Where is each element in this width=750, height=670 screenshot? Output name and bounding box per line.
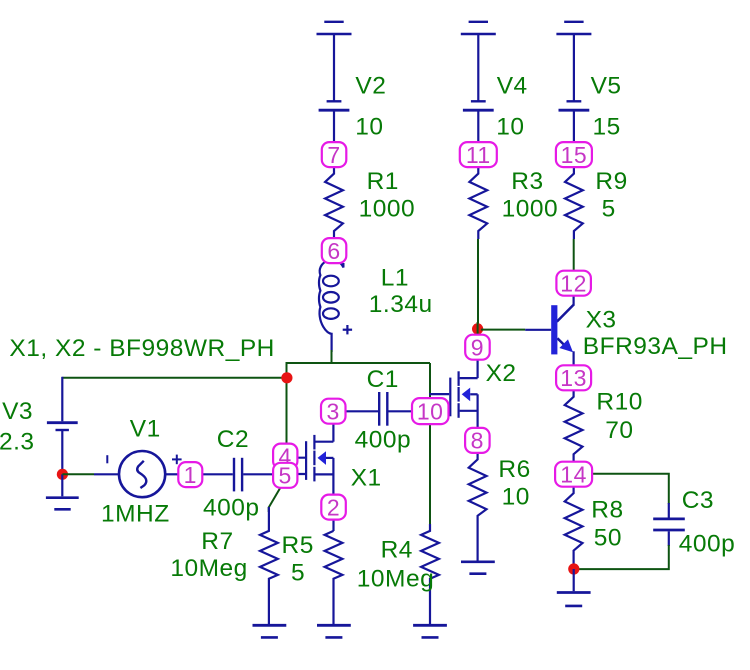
svg-text:10: 10 (502, 484, 530, 511)
svg-text:1000: 1000 (502, 196, 559, 223)
ground (below R6) (461, 562, 495, 574)
svg-text:V3: V3 (2, 398, 33, 425)
svg-text:15: 15 (593, 114, 621, 141)
node 8 (465, 428, 490, 454)
svg-text:11: 11 (466, 142, 491, 168)
ground (flipped, above battery V4) (461, 22, 496, 34)
node 12 (556, 271, 591, 297)
wire node 2 to R5 (332, 519, 334, 531)
wire node 9 red dot up/down stub (477, 322, 479, 335)
svg-text:X1: X1 (351, 465, 382, 492)
svg-text:1.34u: 1.34u (369, 291, 433, 318)
svg-text:R8: R8 (591, 497, 623, 524)
svg-text:400p: 400p (355, 427, 412, 454)
svg-text:1000: 1000 (359, 196, 416, 223)
svg-text:R3: R3 (511, 168, 543, 195)
svg-text:400p: 400p (679, 530, 736, 557)
svg-text:2: 2 (327, 494, 340, 520)
wire vertical through node 10 to R4 (429, 363, 431, 531)
node 4 (273, 443, 297, 469)
svg-text:R4: R4 (381, 537, 413, 564)
ground (below V3) (46, 474, 79, 509)
node 11 (460, 142, 497, 168)
wire V3 dot to V1 (62, 473, 94, 475)
wire R9 to node 12 (573, 239, 575, 271)
svg-text:R5: R5 (282, 532, 314, 559)
resistor R7 (260, 507, 278, 624)
capacitor C1 (379, 392, 412, 426)
svg-text:V1: V1 (130, 416, 161, 443)
ground (flipped, above battery V5) (556, 22, 591, 34)
wire node 5 to R7 (diagonal) (269, 487, 281, 512)
capacitor C2 (234, 458, 273, 492)
svg-text:5: 5 (602, 196, 616, 223)
capacitor C3 (653, 503, 685, 546)
resistor R8 (565, 487, 583, 569)
battery V5 (559, 34, 590, 142)
source V1 (sine) (94, 451, 182, 497)
junction dot at node 9 (472, 323, 483, 334)
node 7 (322, 142, 347, 168)
ground (below R5) (317, 625, 351, 637)
wire C3 bottom to R8 dot (574, 545, 669, 569)
node 14 (555, 462, 592, 488)
junction dot at wire to node 4 (281, 372, 292, 383)
svg-text:6: 6 (327, 238, 340, 264)
resistor R3 (469, 167, 487, 239)
inductor L1 (319, 260, 352, 352)
node 6 (322, 238, 347, 264)
svg-text:2.3: 2.3 (0, 428, 35, 455)
resistor R4 (421, 524, 439, 624)
svg-text:C2: C2 (217, 426, 249, 453)
resistor R5 (325, 531, 343, 624)
svg-text:R7: R7 (201, 528, 233, 555)
wire R3 to node 9 (477, 239, 479, 335)
transistor X3 base bar (551, 305, 557, 354)
resistor R6 (469, 453, 487, 561)
battery V3 (47, 377, 78, 475)
svg-text:7: 7 (327, 142, 340, 168)
svg-text:14: 14 (560, 462, 587, 488)
transistor X3 emitter arrow (559, 339, 573, 352)
wire node 1 to C2 (202, 473, 232, 475)
node 10 (412, 398, 449, 424)
wire horizontal main (y=363) (287, 363, 431, 445)
svg-text:R1: R1 (367, 168, 399, 195)
svg-text:X1, X2 - BF998WR_PH: X1, X2 - BF998WR_PH (9, 335, 274, 362)
resistor R1 (325, 167, 343, 238)
junction dot below R8 (568, 563, 579, 574)
wire node 14 to C3 (592, 474, 669, 504)
svg-text:R10: R10 (596, 389, 642, 416)
svg-text:50: 50 (594, 524, 622, 551)
svg-text:V2: V2 (355, 73, 386, 100)
node 13 (556, 365, 591, 391)
svg-text:3: 3 (327, 399, 340, 425)
svg-text:R6: R6 (498, 456, 530, 483)
mosfet X1 substrate arrow (318, 451, 327, 465)
resistor R10 (565, 390, 583, 462)
wire horizontal to V3 (y=377.8) (62, 377, 286, 379)
svg-text:V5: V5 (591, 73, 622, 100)
svg-text:10Meg: 10Meg (170, 555, 247, 582)
wire node 9 to X3 base (481, 329, 525, 331)
svg-text:C1: C1 (367, 366, 399, 393)
mosfet X2 substrate arrow (462, 388, 471, 402)
svg-text:X2: X2 (486, 360, 517, 387)
node 15 (556, 142, 592, 168)
transistor X3 (NPN BFR93A) (525, 296, 574, 366)
svg-text:R9: R9 (595, 168, 627, 195)
svg-text:8: 8 (471, 428, 484, 454)
wire L1 bottom lead (331, 350, 333, 364)
svg-text:10: 10 (417, 398, 444, 424)
mosfet X2 (BF998 dual-gate) (429, 360, 477, 428)
svg-text:9: 9 (471, 335, 484, 361)
ground (below R7) (253, 625, 287, 637)
node 5 (273, 463, 297, 489)
node 3 drain wire handled in mosfet; capacitor C1 lead left (345, 410, 378, 412)
mosfet X1 (BF998 dual-gate) (285, 424, 333, 495)
svg-text:5: 5 (279, 463, 292, 489)
svg-text:V4: V4 (497, 72, 528, 99)
svg-text:12: 12 (560, 271, 587, 297)
ground (below R8) (557, 569, 591, 606)
svg-text:1MHZ: 1MHZ (101, 500, 170, 527)
svg-text:5: 5 (291, 559, 305, 586)
svg-text:10: 10 (355, 114, 383, 141)
battery V4 (463, 34, 494, 142)
ground (flipped, above battery V2) (317, 22, 352, 34)
node 1 (178, 462, 202, 488)
svg-text:10Meg: 10Meg (357, 565, 434, 592)
svg-text:C3: C3 (682, 487, 714, 514)
svg-text:15: 15 (561, 142, 588, 168)
node 9 (465, 335, 490, 361)
battery V2 (319, 34, 350, 142)
svg-text:10: 10 (496, 114, 524, 141)
resistor R9 (565, 167, 583, 239)
junction dot at V3/ground (57, 469, 68, 480)
svg-text:1: 1 (184, 462, 197, 488)
ground (below R4) (413, 625, 447, 637)
node 2 (321, 494, 346, 520)
node 3 (321, 399, 346, 425)
svg-text:400p: 400p (203, 495, 260, 522)
svg-text:13: 13 (560, 365, 587, 391)
svg-text:70: 70 (605, 417, 633, 444)
svg-text:X3: X3 (586, 307, 617, 334)
svg-text:BFR93A_PH: BFR93A_PH (583, 333, 728, 360)
svg-text:L1: L1 (381, 265, 409, 292)
